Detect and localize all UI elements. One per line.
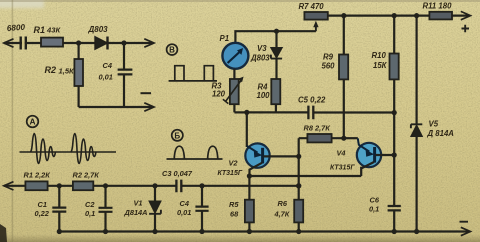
- zener V5 Д814А: [411, 16, 422, 232]
- svg-text:V3: V3: [257, 44, 267, 53]
- node input-C4: [199, 183, 204, 188]
- potentiometer P1 (blue dial): [222, 43, 248, 69]
- svg-text:R11 180: R11 180: [423, 2, 453, 11]
- svg-text:С4: С4: [103, 61, 112, 70]
- node rail-V1: [152, 229, 157, 234]
- wire V2 emitter: [250, 163, 263, 176]
- node input-C1: [57, 183, 62, 188]
- node rail-C1: [57, 229, 62, 234]
- svg-text:120: 120: [212, 90, 226, 99]
- arrow right (inset bottom output): [144, 103, 154, 111]
- resistor R4 100: [271, 79, 280, 104]
- resistor R6 4,7K: [294, 200, 303, 232]
- wire emitter coupling line: [249, 167, 361, 176]
- svg-text:R8 2,7К: R8 2,7К: [304, 124, 331, 133]
- svg-text:560: 560: [322, 62, 336, 71]
- waveform A: damped bursts: [20, 134, 117, 164]
- svg-text:С6: С6: [370, 196, 380, 205]
- svg-text:V1: V1: [134, 199, 143, 208]
- resistor R2 2,7K: [73, 181, 93, 190]
- svg-text:V5: V5: [429, 120, 439, 129]
- svg-text:С5 0,22: С5 0,22: [298, 96, 326, 105]
- svg-text:А: А: [29, 117, 35, 127]
- resistor R11 180: [429, 12, 452, 20]
- capacitor 6800: [21, 37, 26, 50]
- svg-text:0,1: 0,1: [369, 205, 379, 214]
- node rail-V5: [414, 13, 419, 18]
- capacitor C3 0,047: [176, 180, 181, 193]
- node R1-diode junction: [76, 40, 81, 45]
- wire: inset top line: [4, 42, 153, 44]
- svg-text:С2: С2: [85, 200, 95, 209]
- wire main input line: [4, 185, 299, 187]
- node rail-R6: [296, 229, 301, 234]
- svg-text:0,01: 0,01: [99, 73, 113, 82]
- svg-text:R1 2,2К: R1 2,2К: [24, 171, 51, 180]
- node rail-C2: [103, 229, 108, 234]
- plus mark: [462, 25, 470, 32]
- wire P1 top to R7 wiper: [235, 31, 316, 43]
- node V2 base: [296, 154, 301, 159]
- resistor R1 43K (inset): [41, 38, 63, 47]
- svg-text:Д814А: Д814А: [124, 208, 148, 217]
- svg-text:С3 0,047: С3 0,047: [162, 169, 193, 178]
- arrow right top rail: [461, 11, 471, 19]
- wire bottom rail: [59, 230, 469, 232]
- wire V4 emitter: [361, 162, 374, 168]
- svg-text:0,22: 0,22: [35, 209, 50, 218]
- svg-text:R2 2,7К: R2 2,7К: [73, 171, 100, 180]
- node input-V1: [152, 183, 157, 188]
- pale top-left corner of scan: [0, 0, 44, 8]
- svg-text:С1: С1: [38, 200, 47, 209]
- resistor R1 2,2K: [25, 181, 47, 190]
- svg-text:R2: R2: [45, 65, 57, 75]
- node rail-R10: [392, 13, 397, 18]
- node A circle: [27, 116, 39, 128]
- node diode-C4 junction: [121, 40, 126, 45]
- arrow right bottom rail: [461, 227, 471, 235]
- svg-text:R1: R1: [34, 25, 46, 35]
- capacitor C4 0,01 (main): [195, 186, 208, 232]
- svg-text:Р1: Р1: [220, 34, 230, 43]
- svg-text:КТ315Г: КТ315Г: [218, 170, 243, 177]
- diode Д803 (inset): [95, 37, 108, 50]
- node rail-C6: [392, 229, 397, 234]
- node B(Б) circle: [172, 130, 183, 141]
- wire V4 base lead: [376, 154, 395, 156]
- capacitor C4 0.01 (inset): [118, 43, 133, 107]
- resistor R8 2,7K: [299, 134, 344, 142]
- node input to V2 base line: [296, 183, 301, 188]
- base bar V2: [261, 148, 264, 164]
- svg-text:Б: Б: [174, 131, 180, 140]
- trimmer R3 120: [223, 77, 244, 105]
- node rail-V5: [414, 229, 419, 234]
- capacitor C5 0,22: [308, 106, 313, 120]
- wire top rail: [328, 15, 469, 17]
- node C5 to R10 line: [392, 110, 397, 115]
- svg-text:43К: 43К: [46, 26, 61, 35]
- arrow right (inset top output): [144, 39, 154, 47]
- svg-text:Д803: Д803: [250, 54, 270, 63]
- wire divider line y112 with C5: [234, 111, 394, 113]
- svg-text:КТ315Г: КТ315Г: [330, 164, 355, 171]
- transistor V2 КТ315Г: [245, 112, 298, 176]
- resistor R10 15K: [390, 16, 399, 155]
- wire P1 bottom to R3: [233, 69, 235, 79]
- svg-text:1,5К: 1,5К: [59, 67, 76, 76]
- node V2 collector junction: [244, 110, 249, 115]
- wire V4 collector: [344, 137, 358, 139]
- resistor R5 68: [245, 176, 254, 232]
- wires R3/R4 to divider line: [234, 104, 276, 112]
- svg-text:R7 470: R7 470: [299, 2, 325, 11]
- waveform Б: half-sine pulses: [167, 146, 223, 159]
- wire V2 collector: [246, 112, 248, 147]
- resistor R9 560: [339, 16, 348, 138]
- svg-text:V4: V4: [337, 149, 346, 158]
- arrow left main input: [4, 182, 14, 190]
- resistor R2 1.5K (inset): [74, 59, 83, 86]
- minus mark: [460, 221, 469, 223]
- wire V2 base lead: [264, 155, 299, 157]
- arrow left (inset input): [4, 39, 14, 47]
- node R8-R9-V4 collector: [341, 136, 346, 141]
- capacitor C2 0,1: [99, 186, 113, 232]
- node input-C2: [103, 183, 108, 188]
- svg-text:6800: 6800: [7, 23, 26, 33]
- svg-text:R5: R5: [229, 200, 239, 209]
- svg-text:100: 100: [257, 91, 271, 100]
- variable resistor R7 470: [304, 12, 327, 31]
- svg-text:R10: R10: [372, 51, 387, 60]
- minus mark (inset): [141, 92, 152, 94]
- wire V2 base vertical (R8 left / input / R6): [298, 138, 300, 200]
- svg-text:68: 68: [230, 210, 239, 219]
- dark blob bottom-left corner: [0, 224, 7, 242]
- capacitor C6 0,1: [388, 155, 401, 232]
- svg-text:0,1: 0,1: [85, 209, 95, 218]
- zener V1 Д814А: [149, 186, 161, 232]
- svg-text:15К: 15К: [373, 61, 388, 70]
- svg-text:С4: С4: [180, 199, 189, 208]
- svg-text:Д 814А: Д 814А: [427, 129, 455, 138]
- node rail-R5: [247, 229, 252, 234]
- svg-text:В: В: [169, 46, 175, 55]
- waveform B: pulse train: [169, 66, 217, 81]
- svg-text:R6: R6: [278, 199, 288, 208]
- svg-text:4,7К: 4,7К: [274, 210, 290, 219]
- wire R2 vertical: [77, 43, 79, 107]
- capacitor C1 0,22: [52, 186, 66, 232]
- node rail-R9: [341, 13, 346, 18]
- node V4 base: [392, 152, 397, 157]
- wire: inset bottom line: [79, 106, 153, 108]
- svg-text:V2: V2: [229, 159, 239, 168]
- node P1/V3/R7 junction: [274, 29, 279, 34]
- base bar V4: [373, 147, 376, 163]
- svg-text:Д803: Д803: [88, 25, 109, 34]
- svg-text:0,01: 0,01: [177, 208, 191, 217]
- zener V3 Д803: [271, 31, 282, 79]
- node V2 emitter: [247, 173, 252, 178]
- transistor V4 КТ315Г: [344, 138, 394, 168]
- node B circle: [167, 44, 178, 55]
- scan crease line left: [12, 0, 14, 242]
- node rail-C4: [199, 229, 204, 234]
- svg-text:R9: R9: [323, 53, 334, 62]
